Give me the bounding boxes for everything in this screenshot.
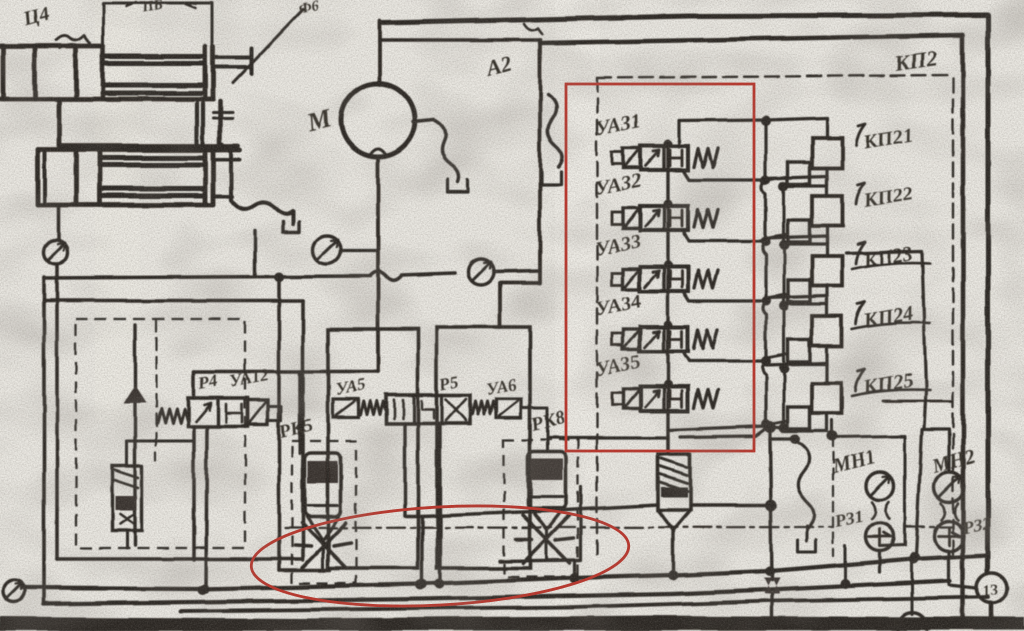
solenoid valve УА34 solenoid box: [623, 329, 640, 349]
bus line L2: [44, 581, 950, 604]
junction dot 203,590: [198, 585, 208, 595]
wire РК7 top feed: [666, 437, 669, 454]
junction main node: [764, 421, 776, 433]
wire bowtie down: [770, 594, 773, 620]
wire КП25 top: [766, 363, 827, 383]
wire РК7 to bus: [671, 530, 674, 574]
wire from middle rod to hose: [222, 144, 231, 200]
check valve arrow: [124, 386, 146, 403]
КП2 dashed enclosure right: [952, 78, 954, 560]
relief valve КП22 square: [812, 196, 842, 226]
node at 784,306: [779, 301, 789, 311]
junction dot 845,584: [840, 579, 850, 589]
wire РК5 left branch: [277, 277, 281, 570]
valve Р4 left cell arrow: [196, 403, 211, 421]
solenoid valve УА31 pilot nub: [612, 152, 623, 164]
outer sheet border right: [986, 15, 991, 573]
cylinder Ц3 rod: [101, 46, 106, 99]
cylinder Ц3 piston: [33, 46, 38, 99]
outer sheet border top: [383, 15, 988, 23]
wire valve output 1: [679, 120, 766, 147]
relief valve КП25 pilot square: [788, 407, 810, 429]
КП2 dashed enclosure left: [596, 78, 598, 560]
wire КП22 pilot to node: [766, 234, 788, 238]
arrow mark КП24: [856, 302, 865, 324]
wire КП21 top: [766, 118, 827, 138]
РК8 crossed-out mark: [516, 515, 574, 563]
valve Р4 spring: [157, 409, 188, 423]
wire motor to top border: [378, 21, 382, 84]
gauge МН2: [934, 472, 964, 502]
wire valve output 3: [684, 232, 766, 241]
solenoid valve УА35 left cell arrow: [645, 391, 659, 407]
wire link 922 down: [916, 430, 922, 556]
valve Р5 spring left: [360, 402, 386, 415]
dashed inner divider: [155, 319, 157, 460]
solenoid valve УА33 solenoid box: [623, 269, 640, 289]
junction dot 770,571: [765, 566, 775, 576]
cylinder Ц3 rod end cap: [203, 46, 208, 99]
РК5 reducing valve body: [305, 453, 341, 517]
solenoid УА12 box: [248, 400, 268, 424]
wire Р5 bottom left: [403, 424, 406, 516]
hose S-curve (mid right): [795, 441, 815, 528]
node at 766,121: [761, 116, 771, 126]
РК5 crossed-out mark: [295, 523, 351, 568]
wire РК8 top: [521, 408, 547, 452]
wire КП24 bottom: [784, 346, 827, 364]
wire node to РК7 top: [680, 428, 766, 437]
node at 784,428: [779, 423, 789, 433]
solenoid УА6 box: [496, 399, 521, 418]
node at 766,361: [761, 356, 771, 366]
node column V2: [783, 186, 786, 428]
solenoid valve УА32 body: [640, 206, 688, 230]
hose S-curve to drain (pump): [434, 120, 459, 182]
check valve arrow line: [133, 325, 136, 545]
solenoid valve УА34 right cell marks: [670, 331, 682, 347]
valve Р5 left cell marks: [394, 400, 403, 419]
А2 frame left edge: [500, 40, 540, 327]
wire КП25 bottom: [784, 413, 827, 431]
left circuit box left edge: [42, 277, 46, 604]
wire РК8 junction to bus: [573, 560, 576, 578]
circuit box (УА6 side): [437, 327, 530, 568]
outer border lower right segment: [989, 603, 994, 622]
flourish under КП24: [852, 323, 930, 329]
node column V1: [763, 120, 767, 426]
relief valve КП24 pilot square: [788, 340, 810, 362]
bus line L3: [180, 597, 988, 611]
dash-dot pilot line right part: [906, 526, 952, 528]
solenoid valve УА31 left cell arrow: [645, 150, 659, 166]
wire КП21 pilot to node: [766, 176, 788, 180]
РК8 reducing valve body: [528, 452, 566, 510]
solenoid valve УА33 spring: [694, 270, 718, 288]
inner frame top: [540, 35, 963, 43]
solenoid valve УА35 body: [640, 387, 688, 411]
relief valve КП23 square: [812, 256, 842, 286]
wire drain stub to bus: [253, 231, 256, 275]
wire relief valve top: [126, 441, 129, 466]
solenoid valve УА32 left cell arrow: [645, 210, 659, 226]
РК8 valve funnel: [530, 508, 564, 530]
РК8 valve hatch top: [531, 459, 563, 480]
cylinder Ц3 rod extension: [213, 55, 252, 59]
wire Р31 down: [878, 551, 881, 572]
РК5 valve hatch band: [308, 506, 338, 517]
valve РК7 hatch: [660, 458, 687, 491]
valve Р32 circle: [934, 521, 964, 551]
КП2 dashed enclosure top: [597, 75, 952, 78]
valve Р4 body: [188, 398, 248, 426]
relief valve КП24 square: [812, 316, 842, 346]
wire Р5 bottom to РК8 junction: [405, 516, 422, 583]
wire branch to РК5: [298, 372, 302, 441]
drain U symbol (А2): [541, 172, 561, 185]
junction dot 575,578: [570, 573, 580, 583]
dash-dot pilot line: [285, 527, 833, 528]
cylinder Ц4 rod: [100, 156, 205, 161]
valve Р5 right cell X: [446, 399, 466, 421]
РК5 dashed box: [292, 441, 356, 583]
wire КП21 bottom: [784, 168, 827, 186]
wire КП22 bottom: [784, 226, 827, 244]
wire КП25 to main node: [771, 427, 784, 428]
wire pump line to Р4 manifold: [194, 370, 378, 374]
МН1 box dashed left: [832, 437, 834, 556]
relief valve (left box): [112, 466, 142, 531]
cylinder Ц4 rod extension: [213, 158, 240, 162]
label Ц3 scribble: [56, 35, 90, 48]
solenoid valve УА35 solenoid box: [623, 389, 640, 409]
wire Р4 to bottom bus A: [192, 426, 196, 560]
bottom dark band: [0, 621, 1024, 624]
wire valve output 5: [684, 353, 766, 361]
wire КП25 pilot to node: [766, 421, 788, 425]
dashed box (filter unit): [76, 319, 245, 548]
wire РК8 to bus: [546, 530, 549, 560]
valve Р4 right cell symbols: [226, 404, 242, 422]
junction dot 420,585: [415, 580, 425, 590]
inner frame right: [961, 35, 966, 625]
arrow mark КП22: [856, 182, 865, 204]
wire КП24 top: [766, 296, 827, 316]
wire РК5 feed: [299, 441, 302, 453]
node at 766,424: [761, 419, 771, 429]
wire Р4 to bottom bus B: [206, 426, 207, 589]
wire КП24 pilot to node: [766, 354, 788, 358]
flourish under КП25: [852, 390, 930, 396]
solenoid valve УА34 pilot nub: [612, 333, 623, 345]
valve Р31 circle: [866, 523, 894, 551]
gauge МН (pump line): [313, 236, 341, 264]
circuit box (УА5 side): [328, 329, 418, 568]
arrow mark КП21: [856, 124, 865, 146]
solenoid column vertical: [666, 147, 669, 454]
node at 766,180: [761, 175, 771, 185]
wire КП22 top: [766, 176, 827, 196]
stub gauge to pump line: [341, 249, 378, 252]
wire Р32 down to gauge 13: [949, 551, 977, 588]
drain U symbol: [283, 222, 299, 232]
wire to bottom gauge: [911, 560, 914, 614]
solenoid valve УА31 solenoid box: [623, 148, 640, 168]
cylinder Ц4 barrel: [38, 148, 240, 153]
solenoid valve УА33 pilot nub: [612, 273, 623, 285]
bus line to А2 frame: [494, 271, 540, 272]
junction dot 914,559: [909, 554, 919, 564]
red annotation rectangle: [566, 84, 754, 451]
wire МН1 box down: [844, 546, 847, 584]
relief valve КП22 pilot square: [788, 220, 810, 242]
РК5 valve funnel: [307, 517, 339, 541]
gauge partial bottom: [898, 612, 928, 631]
bus line with hose segment: [44, 272, 455, 281]
pump М circle: [341, 83, 415, 157]
solenoid valve УА35 spring: [694, 390, 718, 408]
solenoid valve УА34 body: [640, 327, 688, 351]
junction dot 673,575: [668, 570, 678, 580]
solenoid valve УА32 spring: [694, 209, 718, 227]
relief valve КП21 pilot square: [788, 162, 810, 184]
solenoid valve УА31 right cell marks: [670, 150, 682, 166]
РК8 dashed box: [504, 440, 578, 577]
МН1 box outline: [833, 436, 905, 546]
valve Р5 body: [386, 395, 470, 424]
solenoid valve УА34 left cell arrow: [645, 331, 659, 347]
gauge МН (cylinder line): [44, 240, 68, 264]
wire МН2 top: [926, 430, 949, 472]
node at 784,368: [779, 363, 789, 373]
solenoid УА5 box: [333, 399, 358, 417]
wire node down to bowtie: [770, 439, 772, 580]
arrow mark КП23: [856, 242, 865, 264]
arrow mark КП25: [856, 369, 865, 391]
solenoid valve УА32 pilot nub: [612, 212, 623, 224]
left circuit box bottom edge: [57, 557, 303, 561]
wire valve output 6: [668, 426, 766, 430]
valve Р5 spring right: [472, 402, 496, 415]
node at 766,301: [761, 296, 771, 306]
coupler МН2-Р32: [941, 503, 958, 520]
junction squiggle on border: [524, 24, 542, 34]
wire motor to А2 frame: [380, 38, 540, 42]
flourish under КП23: [852, 263, 930, 269]
valve РК7 funnel: [658, 510, 690, 530]
node at 766,241: [761, 236, 771, 246]
left circuit box top edge: [44, 299, 303, 303]
cylinder middle stage: [57, 99, 62, 146]
wire Р5 bottom right: [438, 424, 441, 583]
coupler МН1-Р31: [872, 502, 889, 519]
stroke bracket over cylinder: [103, 3, 212, 46]
gauge bottom left: [3, 580, 25, 602]
gauge МН (bus): [468, 259, 494, 285]
wire node to hose: [770, 427, 795, 439]
wire РК8 to solenoid column base: [548, 436, 668, 439]
wire valve output 4: [684, 293, 766, 301]
РК5 valve hatch top: [308, 461, 338, 483]
solenoid valve УА32 right cell marks: [670, 210, 682, 226]
cylinder Ц3 barrel: [0, 44, 103, 49]
cylinder Ц4 rod end cap: [203, 150, 208, 205]
bus line L1: [22, 555, 988, 589]
node at 784,186: [779, 181, 789, 191]
solenoid valve УА32 solenoid box: [623, 208, 640, 228]
red annotation ellipse: [249, 497, 632, 616]
hose S-curve on А2 frame: [548, 95, 563, 167]
solenoid valve УА33 left cell arrow: [645, 271, 659, 287]
РК8 valve band: [531, 497, 563, 508]
wire pump suction down: [376, 157, 380, 372]
left circuit box right edge: [301, 301, 305, 560]
wire РК5 to bus: [322, 541, 325, 570]
relief valve КП21 square: [812, 138, 842, 168]
solenoid valve УА35 pilot nub: [612, 393, 623, 405]
pump М inner tick: [370, 149, 386, 155]
wire lower right link: [883, 400, 951, 403]
wire РК5 bottom corner: [279, 568, 330, 572]
РК8 lower manifold: [500, 560, 580, 561]
valve Р5 mid cell marks: [422, 401, 434, 419]
relief valve КП23 pilot square: [788, 280, 810, 302]
wire КП23 pilot to node: [766, 294, 788, 298]
wire gauge to bus: [55, 264, 59, 559]
solenoid valve УА31 body: [640, 146, 688, 170]
node at 784,245: [779, 240, 789, 250]
gauge МН1: [866, 472, 894, 500]
wire relief valve bottom: [126, 531, 129, 548]
wire КП23 loop: [846, 251, 926, 430]
drain U symbol (pump): [448, 180, 468, 192]
solenoid valve УА34 spring: [694, 330, 718, 348]
solenoid valve УА31 spring: [694, 149, 718, 167]
valve РК7 body: [658, 454, 690, 510]
solenoid valve УА33 right cell marks: [670, 271, 682, 287]
wire КП23 top: [766, 236, 827, 256]
wire pump outlet right: [413, 120, 434, 122]
wire cylinder Ц4 port down: [57, 205, 61, 240]
gauge 13 (right): [977, 573, 1007, 603]
junction bowtie: [764, 578, 780, 594]
drain U symbol (mid right): [798, 540, 816, 552]
solenoid УА12 nub: [268, 406, 281, 420]
wire РК8 right vertical: [579, 487, 582, 560]
solenoid valve УА33 body: [640, 267, 688, 291]
solenoid valve УА35 right cell marks: [670, 391, 682, 407]
relief valve КП25 square: [812, 383, 842, 413]
wire МН1 feed: [831, 420, 834, 437]
wire КП23 bottom: [784, 286, 827, 304]
hose wavy to drain: [231, 200, 293, 224]
cylinder Ц4 piston: [74, 150, 79, 205]
cross-connect РК7 to node: [690, 503, 771, 506]
wire branch to Р4 valve: [192, 372, 196, 398]
wire valve output 2: [684, 172, 766, 180]
leader line to Ф6: [233, 10, 303, 83]
cross-connect Р5 lower: [422, 505, 658, 516]
